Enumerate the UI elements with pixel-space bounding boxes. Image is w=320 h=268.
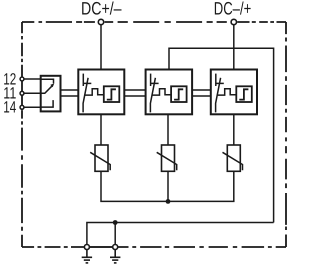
wire module U1 to varistor RV1 xyxy=(100,114,102,145)
wire DC-/+ terminal down to protection module U3 xyxy=(233,22,235,70)
U2 trigger step symbol xyxy=(174,89,183,99)
svg-text:14: 14 xyxy=(3,98,16,116)
wire DC+/- terminal to protection module U1 xyxy=(100,22,102,70)
wire segment between ground terminals xyxy=(87,246,115,248)
terminal 11 xyxy=(20,91,24,95)
contact 11 movable lever xyxy=(41,86,52,93)
wire top bus to module U2 and right drop xyxy=(169,48,274,222)
svg-text:DC–/+: DC–/+ xyxy=(214,0,252,19)
wire varistor RV2 to varistor bus xyxy=(167,171,169,201)
enclosure dash-dot border (explicit dashes) xyxy=(22,22,286,247)
wire module U3 to varistor RV3 xyxy=(233,114,235,145)
wire terminal 14 to contact box xyxy=(22,106,41,108)
SPD module U3 box xyxy=(211,70,257,115)
wire varistor bus xyxy=(101,171,234,201)
junction PE bus / terminal B xyxy=(113,220,118,225)
varistor RV1 xyxy=(90,145,110,171)
wire module U2 to varistor RV2 xyxy=(167,114,169,145)
U3 spark-gap disconnector symbol xyxy=(216,74,236,113)
U3 trigger step symbol xyxy=(239,89,248,99)
U2 trigger box xyxy=(171,86,187,102)
linkage double lines U1 to U2 xyxy=(124,89,145,91)
ground symbol B xyxy=(110,250,120,263)
ground terminal A xyxy=(84,245,89,250)
wire terminal 11 to contact box xyxy=(22,92,41,94)
wire PE bus (bottom) xyxy=(87,223,274,248)
U1 trigger box xyxy=(104,86,120,102)
terminal 14 xyxy=(20,105,24,109)
U3 trigger box xyxy=(236,86,252,102)
terminal DC+/- xyxy=(98,19,103,24)
ground symbol A xyxy=(82,250,92,263)
linkage double lines contact box to U1 xyxy=(61,90,211,96)
svg-text:DC+/–: DC+/– xyxy=(81,0,122,19)
U1 trigger step symbol xyxy=(107,89,116,99)
varistor RV2 xyxy=(157,145,177,171)
varistor RV3 xyxy=(223,145,243,171)
SPD module U2 box xyxy=(146,70,193,115)
remote signalling contact box K1 xyxy=(41,76,61,112)
SPD module U1 box xyxy=(78,70,124,115)
lever arrowhead xyxy=(50,83,54,87)
wire terminal 12 to contact box xyxy=(22,78,41,80)
wire ground terminal B drop xyxy=(114,223,116,248)
contact 14 fixed contact inside K1 xyxy=(41,100,53,107)
contact 12 fixed contact inside K1 xyxy=(41,79,54,83)
linkage double lines U2 to U3 xyxy=(192,89,211,91)
terminal 12 xyxy=(20,77,24,81)
terminal DC-/+ xyxy=(231,19,236,24)
U1 spark-gap disconnector symbol xyxy=(83,74,103,113)
junction varistor RV2 / varistor bus xyxy=(166,199,171,204)
ground terminal B xyxy=(113,245,118,250)
U2 spark-gap disconnector symbol xyxy=(150,74,170,113)
